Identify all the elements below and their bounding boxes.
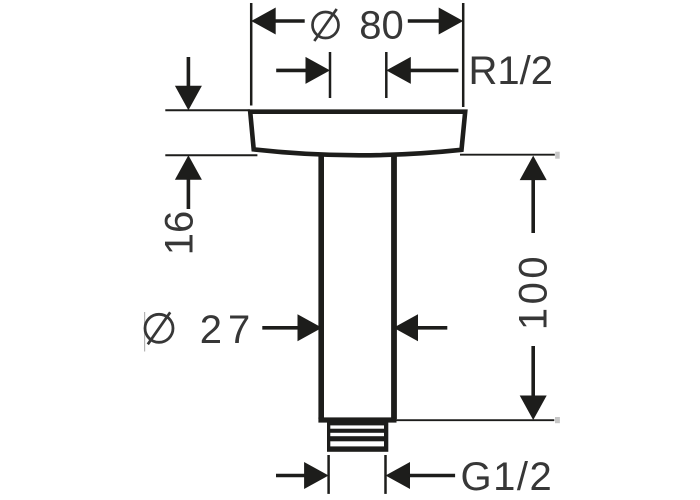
dimension Ø80 left arrow — [251, 8, 305, 35]
dimension 100 down arrow — [520, 346, 547, 420]
stray faint line artifact — [144, 312, 146, 352]
dimension 16 down arrow — [175, 57, 202, 110]
pipe right wall — [391, 153, 397, 419]
svg-text:100: 100 — [512, 253, 556, 330]
diameter symbol of Ø80 — [313, 9, 339, 41]
dimension R1/2 left arrow — [276, 57, 330, 84]
extension line left of Ø80 — [250, 3, 253, 106]
diameter symbol of Ø27 — [145, 312, 173, 344]
dimension G1/2 left arrow — [276, 462, 329, 489]
svg-text:80: 80 — [359, 4, 404, 48]
pipe bottom cap — [318, 417, 396, 422]
svg-text:G1/2: G1/2 — [461, 455, 554, 499]
value label R1/2 — [469, 49, 554, 93]
extension line right of G1/2 — [384, 455, 387, 494]
dimension 16 up arrow — [175, 155, 202, 209]
extension line top of 100 — [460, 154, 555, 156]
dimension Ø27 right arrow — [394, 314, 448, 341]
dimension 100 up arrow — [520, 156, 547, 233]
extension line left of G1/2 — [327, 455, 330, 494]
dimension R1/2 right arrow — [386, 57, 458, 84]
svg-text:27: 27 — [200, 308, 257, 352]
extension tick left of R1/2 — [329, 52, 332, 98]
dimension Ø80 right arrow — [408, 8, 463, 35]
grey endpoint marker top — [555, 152, 560, 159]
value label G1/2 — [461, 455, 554, 499]
extension line bottom of 16 — [165, 154, 257, 156]
svg-text:R1/2: R1/2 — [469, 49, 554, 93]
value label 16 (rotated) — [158, 211, 202, 256]
value label 27 — [200, 308, 257, 352]
extension line right of Ø80 — [462, 3, 465, 107]
extension line bottom of 100 — [397, 419, 555, 421]
value label 80 — [359, 4, 404, 48]
pipe left wall — [318, 153, 324, 419]
value label 100 (rotated) — [512, 253, 556, 330]
dimension G1/2 right arrow — [386, 462, 456, 489]
svg-text:16: 16 — [158, 211, 202, 256]
threaded end G1/2 — [327, 421, 388, 452]
extension tick right of R1/2 — [385, 52, 388, 98]
flange outline — [250, 112, 465, 156]
extension line top of 16 — [165, 109, 250, 111]
dimension Ø27 left arrow — [262, 314, 322, 341]
grey endpoint marker bottom — [555, 417, 560, 423]
